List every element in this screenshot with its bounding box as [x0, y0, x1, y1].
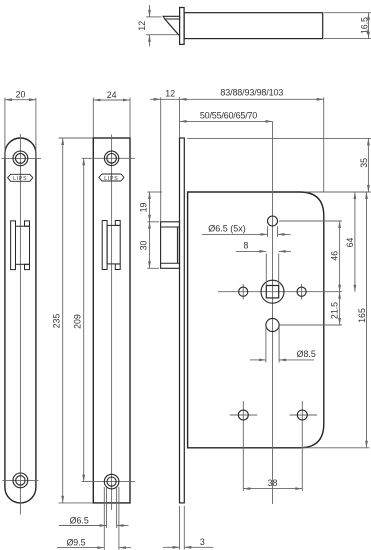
- dimension 24 extension lines: [93, 98, 130, 138]
- svg-text:50/55/60/65/70: 50/55/60/65/70: [200, 110, 257, 120]
- dimension 20 extension lines: [5, 98, 36, 158]
- dimension 165 line: [365, 192, 368, 448]
- top view latch bolt bar: [163, 16, 180, 19]
- svg-text:LIPS: LIPS: [13, 176, 27, 182]
- svg-text:20: 20: [16, 90, 26, 100]
- view3 left hole crosshair: [242, 284, 244, 300]
- dimension 64 text: [345, 238, 355, 248]
- view1 latch top tab: [25, 221, 30, 226]
- dimension o9.5 extension lines: [104, 487, 119, 550]
- extension line faceplate top level: [187, 137, 371, 139]
- view3 follower square: [266, 286, 278, 298]
- top view faceplate edge: [180, 8, 185, 45]
- svg-text:Ø6.5: Ø6.5: [70, 515, 89, 525]
- dimension 209 text: [73, 314, 83, 329]
- view3 latch outline: [161, 222, 180, 268]
- extension line case bottom level: [301, 447, 370, 449]
- view2 bottom hole centerline: [82, 481, 136, 483]
- dimension 8 text: [244, 241, 249, 251]
- dimension o6.5 extension lines: [107, 487, 117, 528]
- dimension 21.5 text: [330, 302, 340, 319]
- dimension 235 line: [61, 138, 64, 503]
- svg-text:LIPS: LIPS: [104, 176, 118, 182]
- svg-text:24: 24: [107, 90, 117, 100]
- view1 bottom screw hole: [13, 473, 28, 488]
- view2 faceplate outline: [93, 138, 130, 503]
- view3 left hole: [239, 287, 248, 296]
- svg-text:Ø6.5 (5x): Ø6.5 (5x): [208, 224, 246, 234]
- view2 latch bottom tab: [115, 264, 120, 270]
- dimension 8 line: [236, 250, 291, 253]
- view3 case outline: [188, 192, 324, 448]
- svg-text:12: 12: [165, 89, 175, 99]
- svg-text:83/88/93/98/103: 83/88/93/98/103: [220, 87, 283, 97]
- svg-text:Ø9.5: Ø9.5: [66, 538, 85, 548]
- dimension 50-70 line: [180, 120, 273, 123]
- view3 right hole: [297, 287, 306, 296]
- dimension o6.5 line: [59, 524, 129, 527]
- dimension 16.5 extension lines: [324, 13, 371, 39]
- view2 latch face: [107, 225, 120, 264]
- svg-text:21.5: 21.5: [330, 302, 340, 319]
- view2 latch top tab: [115, 221, 120, 226]
- view3 faceplate: [180, 138, 185, 503]
- dimension 50-70 text: [200, 110, 257, 120]
- view3 main vertical centerline: [272, 121, 274, 504]
- view1 vertical centerline: [19, 134, 21, 515]
- view3 latch inner lines: [161, 227, 180, 263]
- svg-text:3: 3: [200, 537, 205, 547]
- view1 top screw hole: [13, 151, 28, 166]
- dimension o6.5 5x extension lines: [268, 226, 278, 237]
- view3 latch shading: [177, 227, 179, 263]
- view2 latch left bar: [102, 221, 107, 270]
- svg-text:64: 64: [345, 238, 355, 248]
- dimension 46 text: [330, 251, 340, 261]
- view2 bottom screw hole: [104, 474, 119, 489]
- dimension 64 line: [354, 192, 357, 292]
- dimension 16.5 text: [359, 17, 369, 34]
- dimension 3 extension lines: [180, 506, 185, 550]
- extension line case top level: [306, 191, 371, 193]
- view2 vertical centerline: [111, 135, 113, 511]
- view1 LIPS logo: [8, 174, 33, 182]
- view1 latch bottom tab: [25, 264, 30, 269]
- dimension 3 text: [200, 537, 205, 547]
- view3 bottom right hole crosshair: [290, 401, 318, 491]
- dimension 3 line: [163, 546, 214, 549]
- dimension 19 30 extension lines: [147, 192, 162, 268]
- view1 latch face: [16, 226, 30, 264]
- svg-text:38: 38: [268, 478, 278, 488]
- dimension 19 text: [139, 203, 149, 213]
- view1 faceplate outline: [5, 138, 36, 503]
- svg-text:35: 35: [359, 158, 369, 168]
- view3 bottom left hole crosshair: [230, 401, 258, 491]
- dimension 35 text: [359, 158, 369, 168]
- view1 latch left bar: [11, 221, 16, 270]
- dimension 35 line: [367, 138, 370, 192]
- view1 bottom hole centerline: [3, 479, 39, 481]
- view2 LIPS logo: [99, 174, 124, 182]
- view3 bottom right hole: [297, 410, 307, 420]
- view3 follower horizontal centerline: [218, 291, 342, 293]
- svg-text:235: 235: [52, 314, 62, 329]
- dimension 83-103 text: [220, 87, 283, 97]
- dimension 165 text: [357, 308, 367, 323]
- dimension 30 text: [139, 241, 149, 251]
- dimension 38 line: [243, 487, 302, 490]
- dimension o6.5 5x line: [202, 233, 291, 236]
- dimension o8.5 line: [250, 359, 314, 362]
- dimension 12 and 83-103 line: [150, 98, 323, 101]
- dimension 19 line: [148, 192, 151, 222]
- dimension 235 extension lines: [59, 138, 93, 503]
- top view lock case slab: [184, 13, 323, 39]
- dimension o9.5 line: [57, 546, 131, 549]
- dimension 24 text: [107, 90, 117, 100]
- dimension 21.5 line: [338, 292, 341, 325]
- dimension 235 text: [52, 314, 62, 329]
- top view latch bevel line: [165, 19, 179, 35]
- dimension 46 line: [338, 221, 341, 292]
- view3 bottom left hole: [238, 410, 248, 420]
- dimension 20 text: [16, 90, 26, 100]
- view3 right hole crosshair: [301, 284, 303, 300]
- svg-text:30: 30: [139, 241, 149, 251]
- view2 top screw hole: [104, 151, 118, 165]
- dimension o8.5 extension lines: [266, 327, 279, 363]
- svg-text:12: 12: [137, 21, 147, 31]
- view3 follower circle: [261, 280, 284, 303]
- svg-text:16.5: 16.5: [359, 17, 369, 34]
- dimension 12 latch width text: [137, 21, 147, 31]
- view1 top hole centerline: [2, 157, 42, 159]
- dimension 20 line: [5, 98, 36, 101]
- svg-text:165: 165: [357, 308, 367, 323]
- dimension o8.5 text: [297, 349, 316, 359]
- svg-text:8: 8: [244, 241, 249, 251]
- dimension 16.5 line: [367, 13, 370, 39]
- svg-text:209: 209: [73, 314, 83, 329]
- dimension 12 text: [165, 89, 175, 99]
- dimension o6.5 5x text: [208, 224, 246, 234]
- view2 top hole centerline: [82, 157, 136, 159]
- view3 top hole centerline: [279, 220, 342, 222]
- dimension 30 line: [148, 222, 151, 268]
- dimension o9.5 text: [66, 538, 85, 548]
- dimension 209 line: [82, 158, 85, 481]
- view3 o8.5 hole centerline: [280, 324, 343, 326]
- view3 o8.5 hole: [266, 318, 279, 331]
- svg-text:19: 19: [139, 203, 149, 213]
- dimension o6.5 text: [70, 515, 89, 525]
- svg-text:Ø8.5: Ø8.5: [297, 349, 316, 359]
- dimension 24 line: [93, 99, 130, 102]
- dimension 12 latch width extension lines: [146, 17, 177, 35]
- dimension 8 extension lines: [266, 254, 278, 286]
- view3 top hole: [268, 216, 278, 226]
- dimension 12 latch width line: [148, 5, 151, 47]
- dimension 38 text: [268, 478, 278, 488]
- dimension 12 backset extension lines: [161, 97, 324, 221]
- svg-text:46: 46: [330, 251, 340, 261]
